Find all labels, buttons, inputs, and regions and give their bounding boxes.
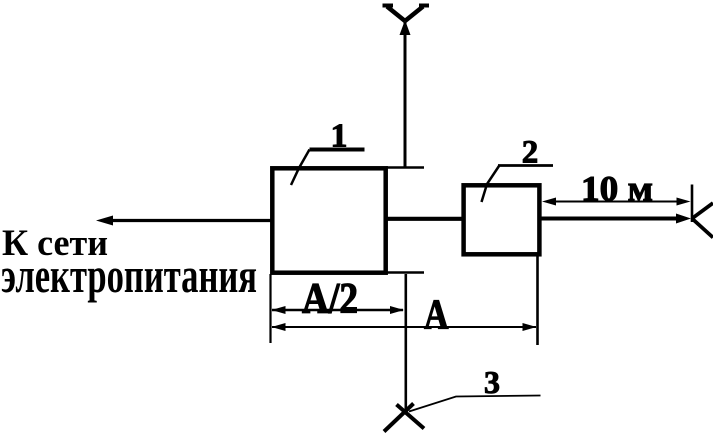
svg-text:10 м: 10 м	[581, 168, 653, 209]
arrowhead: mains wire	[96, 216, 113, 226]
dimension line "10 м"	[547, 201, 685, 203]
arrowhead: wire to antenna W2	[676, 214, 691, 224]
block 1 (device box)	[272, 168, 385, 272]
wire: block 2 to antenna W2	[541, 217, 682, 221]
extension line / mast: centre (to symbol 3)	[404, 274, 407, 414]
leader line for label 1	[291, 150, 310, 186]
symbol 3: earth terminal (X)	[384, 404, 424, 432]
arrowhead: А left	[272, 323, 286, 331]
svg-text:электропитания: электропитания	[1, 248, 257, 304]
arrowhead: А/2 left	[272, 306, 286, 314]
arrowhead: 10 м right	[677, 198, 691, 206]
wire: antenna feed line (vertical)	[404, 22, 407, 168]
antenna W2 (right)	[692, 185, 713, 238]
leader line for label 3	[409, 396, 541, 412]
extension line: right (from block 2)	[536, 256, 539, 345]
svg-text:3: 3	[484, 364, 500, 400]
wire: bottom stub from box 1	[386, 271, 424, 274]
label 1 underline	[310, 148, 365, 152]
extension line: left (from block 1)	[269, 274, 271, 343]
wire: to mains supply (left)	[104, 219, 272, 222]
block 2 (device box)	[464, 185, 540, 254]
leader line for label 2	[482, 166, 500, 202]
arrowhead: 10 м left	[542, 198, 556, 206]
arrowhead: А/2 right	[390, 306, 404, 314]
wire: block 1 to block 2	[386, 217, 463, 221]
dimension line А/2	[272, 309, 403, 312]
text: К сети электропитания	[1, 223, 257, 303]
wire: top stub from box 1 to feed line	[386, 166, 424, 169]
antenna W1 (top)	[383, 6, 430, 36]
arrowhead: А right	[523, 323, 537, 331]
dimension line А	[272, 326, 536, 328]
svg-text:А/2: А/2	[302, 276, 358, 323]
svg-text:А: А	[424, 292, 449, 338]
label 2 underline	[498, 164, 553, 167]
